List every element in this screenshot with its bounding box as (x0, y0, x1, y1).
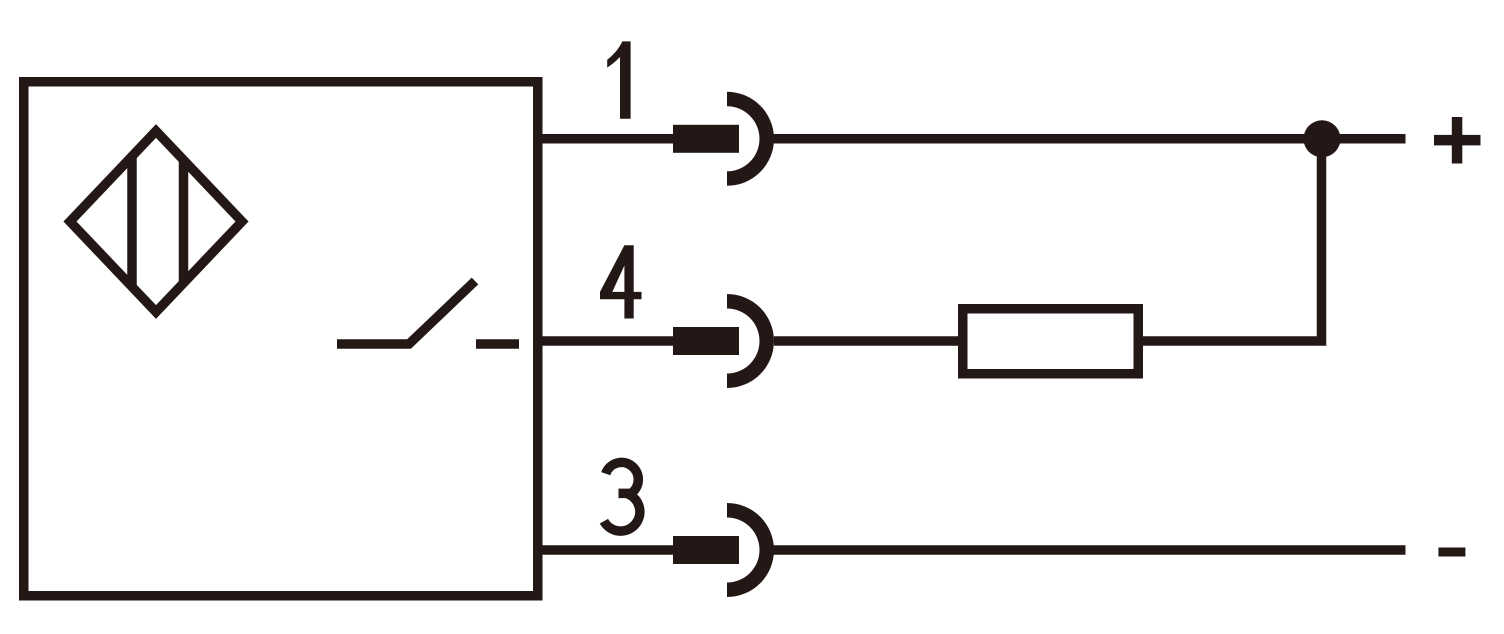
connector pin1: socket arc (727, 92, 774, 186)
proximity sensor symbol: right vertical bar (179, 161, 189, 283)
wire pin4 from connector to load resistor (774, 336, 962, 346)
connector pin1: plug blade (673, 125, 739, 153)
wire pin1 from connector to + node (774, 134, 1406, 144)
wire pin4 from box to connector (535, 336, 673, 346)
proximity sensor symbol: diamond outline (70, 131, 242, 312)
plus terminal: horizontal bar (1434, 135, 1481, 146)
connector pin3: plug blade (673, 536, 739, 564)
connector pin4: plug blade (673, 327, 739, 355)
connector pin4: socket arc (727, 294, 774, 388)
label pin 4 (digit glyph) (600, 245, 642, 318)
switch S1: fixed contact dash (476, 339, 519, 349)
wire pin3 from box to connector (535, 545, 673, 555)
wire from resistor to vertical link and up to + node (1143, 139, 1322, 341)
minus terminal dash (1438, 548, 1465, 557)
switch S1: movable contact (normally open) (337, 281, 475, 344)
connector pin3: socket arc (727, 503, 774, 597)
plus terminal: vertical bar (1452, 117, 1463, 164)
label pin 1 (digit glyph) (607, 41, 630, 118)
sensor body box (24, 82, 538, 596)
wire pin3 from connector to - terminal (774, 545, 1406, 555)
wire pin1 from box to connector (535, 134, 673, 144)
junction dot at + node (1304, 120, 1341, 157)
proximity sensor symbol: left vertical bar (127, 157, 137, 286)
label pin 3 (digit glyph) (604, 462, 640, 531)
load resistor R (963, 309, 1139, 374)
